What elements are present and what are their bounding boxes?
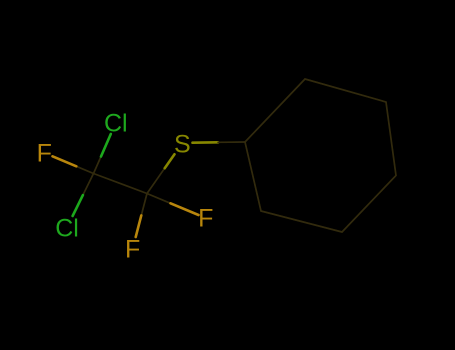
svg-text:S: S: [174, 131, 191, 159]
wire C2-F right bond: [147, 194, 171, 204]
wire C1-C2 bond: [94, 174, 148, 194]
svg-text:F: F: [125, 235, 140, 263]
wire C1-Cl bottom bond: [83, 174, 94, 196]
svg-text:F: F: [37, 140, 52, 168]
svg-text:F: F: [198, 205, 213, 233]
wire C1-F left bond: [76, 166, 93, 173]
wire C1-Cl top bond: [94, 157, 102, 174]
wire S-ring bond: [193, 141, 219, 144]
svg-text:Cl: Cl: [55, 215, 79, 243]
svg-text:Cl: Cl: [104, 110, 128, 138]
wire C2-F bottom bond: [141, 194, 147, 216]
ring cyclohexane: [245, 79, 396, 232]
wire C2-S bond: [147, 168, 165, 193]
